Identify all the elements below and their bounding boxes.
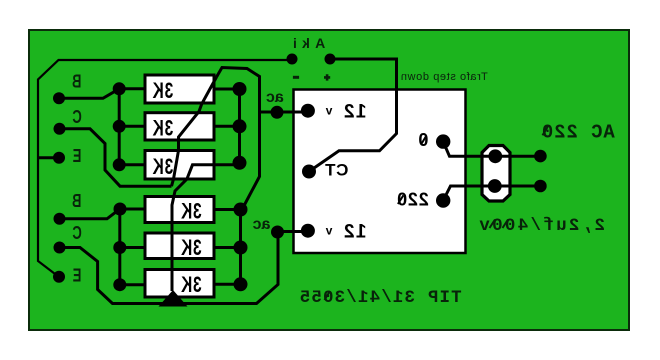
wire C2 to ring bottom to ac2 to 12v2	[60, 232, 308, 304]
wire E1 stub to ring	[38, 156, 60, 159]
resistor R3 body	[145, 151, 214, 180]
capacitor C1 body	[482, 146, 510, 202]
pad top right 3	[233, 156, 247, 170]
pad cap top	[488, 149, 502, 163]
svg-text:C: C	[72, 108, 81, 128]
wire bottom middle column vertical	[118, 209, 121, 285]
label plus	[324, 74, 330, 80]
wire stub R6 left	[120, 283, 146, 286]
svg-text:ac: ac	[266, 89, 284, 106]
label 3K R5	[180, 236, 201, 260]
pad E1	[53, 152, 65, 164]
wire B2 to middle column	[60, 209, 120, 219]
label C (Q1 collector)	[72, 108, 81, 128]
wire bottom right column vertical	[239, 210, 242, 285]
wire arc over right pads to vertical	[217, 68, 260, 210]
pad 12v2	[301, 224, 315, 238]
svg-text:E: E	[73, 147, 82, 167]
wire C1 to under-R3 horizontal	[60, 129, 172, 186]
svg-text:B: B	[72, 192, 81, 212]
wire main diagonal through R1-R3	[172, 77, 217, 186]
label B (Q2 base)	[72, 192, 81, 212]
label ac 2	[253, 216, 271, 233]
svg-text:AC 220: AC 220	[541, 121, 615, 143]
svg-text:Aki: Aki	[288, 35, 325, 51]
wire 220-pad to cap to AC pad	[443, 186, 540, 201]
wire stub R2 left	[119, 125, 146, 128]
transformer footprint box	[294, 90, 466, 254]
pad minus	[287, 54, 298, 65]
svg-text:3K: 3K	[180, 200, 201, 224]
pad bottom right 1	[234, 203, 248, 217]
label E (Q1 emitter)	[73, 147, 82, 167]
wire stub R1 left	[119, 87, 146, 90]
pad bottom mid 1	[114, 203, 127, 216]
wire stub R5 right	[214, 246, 241, 249]
label minus	[293, 76, 299, 79]
svg-text:12: 12	[342, 221, 366, 242]
label TIP 31/41/3055	[299, 288, 462, 308]
label 220	[396, 190, 428, 210]
pad top mid 3	[113, 158, 126, 171]
pad top right 1	[233, 82, 247, 96]
resistor R6 body	[145, 270, 214, 298]
label 12 v top	[342, 101, 366, 122]
wire stub R5 left	[120, 246, 146, 249]
label 3K R6	[180, 273, 201, 297]
label 0	[418, 130, 428, 150]
resistor R5 body	[145, 233, 214, 259]
svg-text:3K: 3K	[152, 117, 173, 141]
label B (Q1 base)	[72, 72, 81, 92]
wire stub R4 right	[214, 208, 241, 211]
svg-text:v: v	[325, 103, 332, 117]
wire plus pad to CT pad	[309, 59, 397, 172]
svg-text:CT: CT	[325, 161, 349, 180]
label CT	[325, 161, 349, 180]
resistor R4 body	[145, 197, 214, 223]
svg-text:2,2uf/400v: 2,2uf/400v	[477, 216, 605, 236]
pad ac1	[271, 106, 284, 119]
pad bottom right 2	[234, 241, 248, 255]
pad C1	[54, 123, 66, 135]
svg-text:E: E	[73, 266, 82, 286]
label 3K R3	[152, 155, 173, 179]
PCB board	[29, 30, 629, 330]
label AC 220	[541, 121, 615, 143]
svg-text:v: v	[325, 223, 332, 237]
label 3K R2	[152, 117, 173, 141]
svg-text:3K: 3K	[152, 155, 173, 179]
wire top middle column vertical	[118, 89, 121, 165]
label Trafo step down	[400, 71, 487, 83]
pad 220	[436, 193, 450, 207]
label E (Q2 emitter)	[73, 266, 82, 286]
pad top mid 2	[113, 120, 126, 133]
wire hook from right pad row3 down through R4-R6	[172, 165, 240, 291]
pad bottom mid 2	[113, 241, 126, 254]
svg-text:C: C	[72, 224, 81, 244]
pad B2	[54, 213, 66, 225]
svg-text:3K: 3K	[180, 273, 201, 297]
svg-text:3K: 3K	[152, 79, 173, 103]
wire stub R4 left	[120, 208, 146, 211]
pad plus	[325, 54, 336, 65]
ground ring trace top/left	[38, 60, 292, 277]
svg-text:ac: ac	[253, 216, 271, 233]
resistor R1 body	[145, 75, 214, 103]
wire B1 to middle column	[59, 89, 119, 99]
label 2,2uf/400v	[477, 216, 605, 236]
wire 0-pad to cap to AC pad	[443, 142, 540, 157]
svg-text:TIP 31/41/3055: TIP 31/41/3055	[299, 288, 462, 308]
pad ac2	[271, 226, 284, 239]
pad bottom right 3	[234, 277, 248, 291]
pad bottom mid 3	[113, 278, 126, 291]
wire ac1 stub	[260, 111, 308, 114]
pad CT	[302, 165, 316, 179]
pad AC right bottom	[534, 180, 547, 193]
wire stub R2 right	[214, 125, 240, 128]
pad 0	[436, 134, 450, 148]
pad AC right top	[534, 150, 547, 163]
wire top right column vertical	[238, 89, 241, 163]
svg-text:Trafo step down: Trafo step down	[400, 71, 487, 83]
svg-text:B: B	[72, 72, 81, 92]
pad top right 2	[233, 119, 247, 133]
pad top mid 1	[113, 82, 126, 95]
resistor R2 body	[145, 113, 214, 140]
wire stub R1 right	[214, 88, 240, 91]
label C (Q2 collector)	[72, 224, 81, 244]
wire stub R6 right	[214, 283, 241, 286]
label 3K R4	[180, 200, 201, 224]
label ac 1	[266, 89, 284, 106]
label 3K R1	[152, 79, 173, 103]
pad E2	[53, 271, 65, 283]
pad C2	[54, 242, 66, 254]
pad B1	[53, 92, 65, 104]
transistor collector triangle	[159, 290, 188, 307]
label Aki	[288, 35, 325, 51]
svg-text:3K: 3K	[180, 236, 201, 260]
label 12 v bottom	[342, 221, 366, 242]
pad 12v1	[301, 104, 315, 118]
pad cap bottom	[488, 179, 502, 193]
wire stub R3 left	[119, 163, 146, 166]
svg-text:12: 12	[342, 101, 366, 122]
